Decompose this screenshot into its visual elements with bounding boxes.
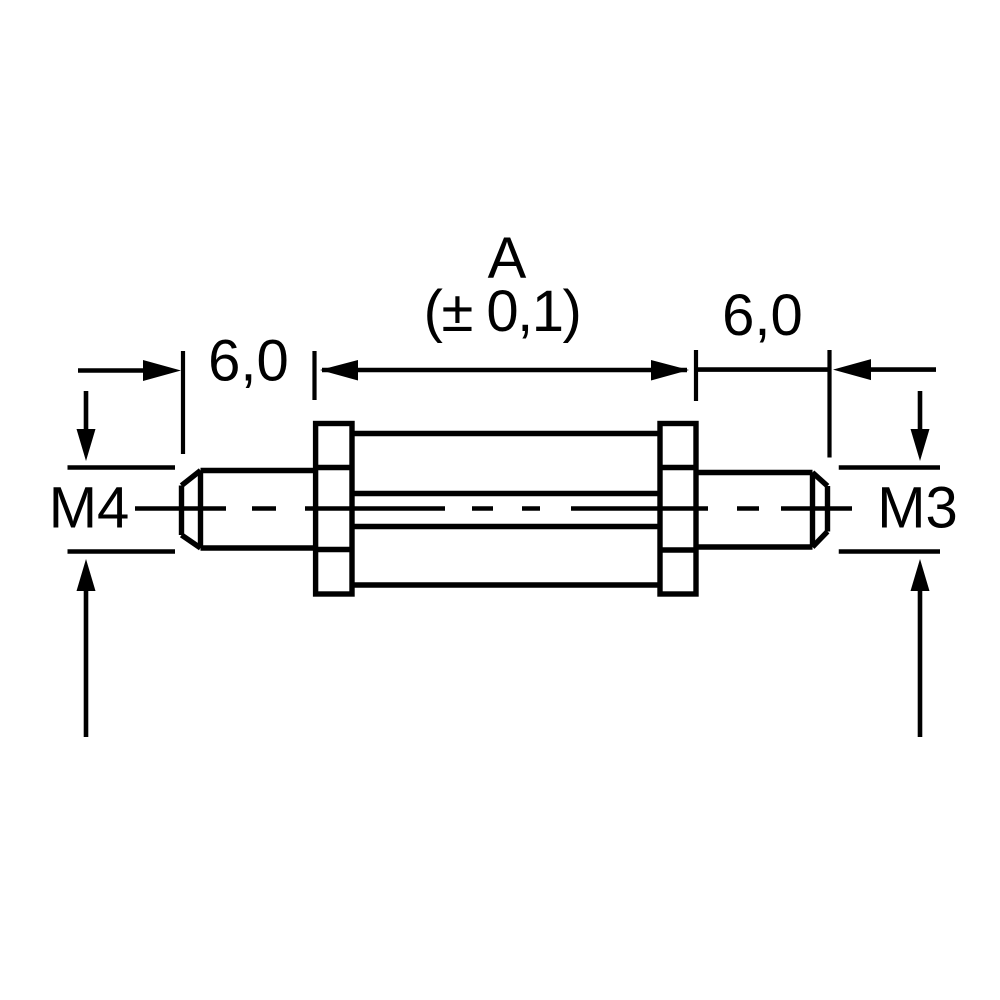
dimension A right arrowhead bbox=[651, 360, 689, 381]
svg-text:(± 0,1): (± 0,1) bbox=[424, 279, 581, 344]
extension lines bbox=[183, 350, 830, 458]
svg-text:M4: M4 bbox=[49, 476, 130, 541]
M4 vertical dimension bbox=[68, 391, 176, 737]
dimension A left arrowhead bbox=[320, 360, 358, 381]
centerline (dashed axis) bbox=[135, 506, 852, 511]
right 6,0 outside arrowhead bbox=[833, 359, 871, 380]
right collar bbox=[660, 424, 696, 595]
svg-text:M3: M3 bbox=[877, 476, 958, 541]
M4 up arrowhead bbox=[77, 559, 96, 591]
M3 up arrowhead bbox=[911, 559, 930, 591]
hex body bbox=[352, 434, 660, 586]
dimension A line bbox=[322, 368, 687, 373]
right 6,0 dimension line bbox=[696, 367, 936, 372]
svg-text:6,0: 6,0 bbox=[722, 283, 803, 348]
M4 down arrowhead bbox=[77, 429, 96, 461]
left 6,0 outside arrow bbox=[78, 368, 146, 373]
M3 down arrowhead bbox=[911, 429, 930, 461]
left stud M4 bbox=[182, 471, 316, 549]
svg-text:6,0: 6,0 bbox=[208, 329, 289, 394]
right stud M3 bbox=[696, 473, 828, 548]
M3 vertical dimension bbox=[839, 391, 940, 737]
left collar bbox=[316, 424, 352, 595]
